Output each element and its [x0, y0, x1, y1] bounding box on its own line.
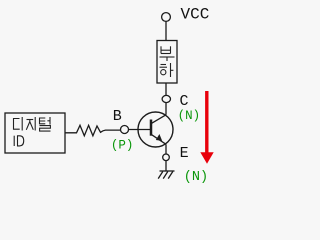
svg-text:VCC: VCC	[181, 6, 210, 24]
svg-text:E: E	[180, 145, 189, 162]
svg-text:(P): (P)	[111, 139, 134, 153]
svg-text:(N): (N)	[178, 109, 201, 123]
svg-text:C: C	[180, 93, 189, 110]
svg-text:B: B	[113, 108, 122, 125]
svg-text:(N): (N)	[184, 170, 208, 185]
